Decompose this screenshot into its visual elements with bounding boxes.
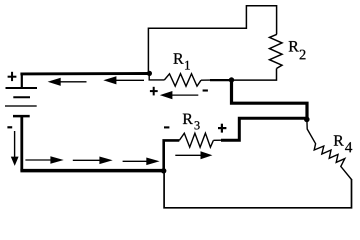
wire: medium segment from R1 lead to node B — [210, 79, 232, 81]
node B junction dot — [229, 77, 234, 82]
R3 right thin lead — [213, 139, 222, 141]
current arrow (right) under R3 — [175, 151, 212, 159]
wire: R1 right thin lead — [201, 79, 210, 81]
current arrow (left) under R1 — [160, 91, 199, 99]
battery B1 top terminal stub — [21, 73, 23, 88]
current arrow (right) 1 on bottom rail — [25, 156, 63, 164]
resistor R3 (horizontal zigzag) — [179, 133, 213, 147]
current arrow (right) 3 on bottom rail — [123, 158, 160, 166]
R1 label — [174, 53, 184, 63]
R3 minus label — [164, 126, 169, 128]
battery B1 minus label — [7, 126, 12, 128]
wire: thick wire from battery + terminal to node A — [20, 72, 149, 75]
current arrow (right) 2 on bottom rail — [73, 157, 113, 165]
wire: thick staircase from node B to node C — [232, 80, 308, 119]
R3 plus label — [218, 124, 226, 133]
current arrow (down) at battery negative — [11, 131, 19, 166]
wire: node A small step into R1 — [149, 73, 164, 80]
wire: battery - terminal down to bottom rail — [20, 116, 23, 171]
wire: thick path from R3 right terminal to node C — [221, 118, 307, 140]
node C junction dot — [304, 117, 310, 123]
R1 minus label — [203, 89, 208, 91]
wire: thin loop from node A up and over to R2 top — [148, 6, 276, 73]
wire: thin from node D down to lower rail — [164, 171, 351, 208]
R4 label — [334, 135, 344, 145]
R3 label — [183, 114, 193, 124]
R2 label — [289, 41, 299, 51]
battery B1 long plate 2 — [5, 105, 37, 107]
wire: thick bottom rail from battery to node D — [20, 169, 163, 173]
resistor R1 (horizontal zigzag) — [164, 74, 201, 87]
node A junction dot — [147, 71, 152, 76]
R1 plus label — [150, 87, 158, 96]
battery B1 long plate 1 — [6, 87, 38, 89]
battery B1 short plate 2 — [13, 115, 30, 118]
current arrow (left) 1 on top wire — [48, 78, 87, 86]
node D junction dot — [161, 168, 166, 173]
resistor R3 left lead — [164, 140, 180, 170]
resistor R2 (vertical zigzag) — [270, 34, 283, 68]
resistor R4 (diagonal zigzag) with leads — [307, 119, 352, 179]
battery B1 short plate 1 — [13, 96, 30, 98]
wire: R2 bottom lead down and left to node B — [232, 69, 277, 81]
current arrow (left) 2 on top wire — [103, 76, 144, 84]
battery B1 plus label — [8, 72, 17, 81]
